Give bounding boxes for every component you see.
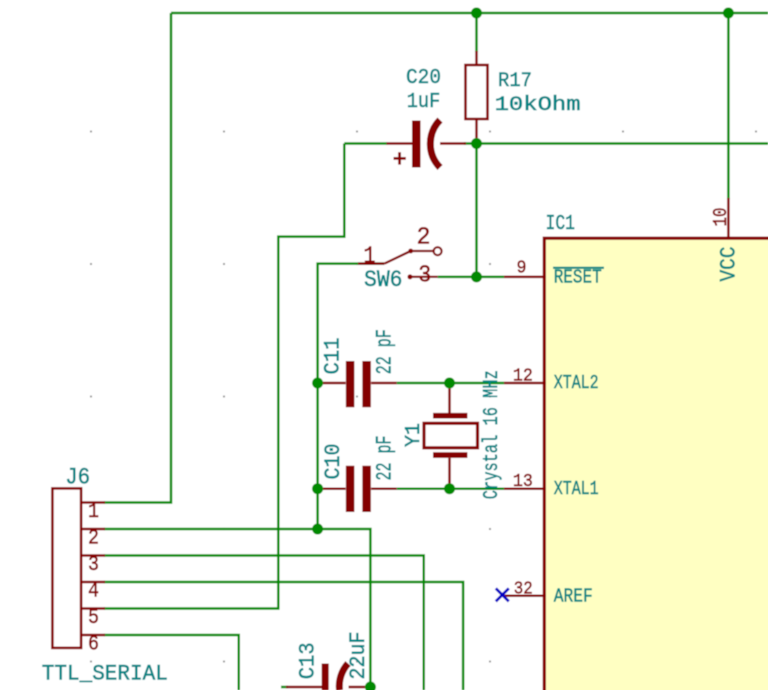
svg-text:VCC: VCC bbox=[717, 247, 742, 282]
svg-text:C10: C10 bbox=[321, 444, 346, 480]
wire J6 pin2 to C13 bbox=[104, 529, 370, 686]
wire top VCC rail bbox=[171, 12, 768, 15]
svg-text:XTAL2: XTAL2 bbox=[554, 372, 599, 394]
svg-text:1uF: 1uF bbox=[407, 91, 441, 114]
wire J6 pin4 down bbox=[104, 582, 463, 690]
pin C11 right lead bbox=[371, 382, 397, 385]
wire VCC vertical bbox=[727, 13, 730, 199]
pin Y1 top lead bbox=[448, 383, 451, 414]
svg-text:C13: C13 bbox=[296, 642, 321, 679]
crystal Y1 bbox=[424, 416, 478, 455]
pin C10 left lead bbox=[319, 487, 346, 490]
svg-text:22 pF: 22 pF bbox=[373, 329, 398, 374]
svg-text:2: 2 bbox=[88, 528, 99, 551]
wire J6 pin3 down bbox=[104, 556, 424, 691]
svg-text:C11: C11 bbox=[321, 338, 346, 375]
pin IC1 RESET 9 bbox=[504, 276, 546, 279]
connector J6 bbox=[52, 488, 105, 648]
resistor R17 bbox=[466, 65, 488, 119]
svg-text:TTL_SERIAL: TTL_SERIAL bbox=[42, 662, 168, 687]
capacitor C10 bbox=[350, 466, 367, 512]
svg-text:SW6: SW6 bbox=[364, 267, 403, 293]
svg-text:12: 12 bbox=[513, 366, 533, 386]
wire bend C20 down to J6 pin5 bbox=[104, 144, 344, 609]
svg-text:4: 4 bbox=[88, 581, 99, 604]
pin IC1 XTAL2 12 bbox=[504, 382, 546, 385]
pin C11 left lead bbox=[319, 382, 346, 385]
svg-text:Y1: Y1 bbox=[403, 423, 426, 447]
pin R17 top lead bbox=[475, 51, 478, 65]
capacitor C11 bbox=[350, 361, 367, 407]
svg-text:9: 9 bbox=[517, 259, 527, 279]
wire RESET row green bbox=[438, 276, 504, 279]
svg-text:32: 32 bbox=[514, 579, 533, 599]
svg-text:IC1: IC1 bbox=[546, 213, 576, 236]
svg-text:6: 6 bbox=[88, 634, 99, 657]
svg-text:3: 3 bbox=[88, 554, 99, 577]
svg-text:1: 1 bbox=[364, 244, 376, 271]
pin C20 right lead bbox=[440, 142, 466, 145]
wire R17 bottom vertical to RESET row bbox=[475, 144, 478, 277]
IC U1 body bbox=[544, 238, 768, 695]
wire R17 top from rail bbox=[475, 13, 478, 52]
capacitor C13 bbox=[325, 664, 348, 691]
svg-text:Crystal 16 MHz: Crystal 16 MHz bbox=[481, 370, 504, 499]
svg-text:RESET: RESET bbox=[554, 267, 602, 289]
svg-text:22 pF: 22 pF bbox=[373, 436, 398, 481]
grid dots bbox=[90, 130, 757, 662]
pin SW6 pin1 lead bbox=[358, 262, 385, 265]
pin IC1 AREF 32 bbox=[503, 595, 546, 598]
svg-text:J6: J6 bbox=[65, 465, 90, 491]
wire XTAL1 row green bbox=[397, 487, 504, 490]
svg-text:AREF: AREF bbox=[554, 585, 593, 607]
svg-text:10kOhm: 10kOhm bbox=[495, 94, 581, 117]
pin C13 left lead bbox=[286, 686, 322, 689]
wire C13 left stub bbox=[281, 686, 288, 689]
no-connect X on AREF bbox=[496, 588, 509, 601]
svg-text:10: 10 bbox=[710, 208, 732, 227]
pin IC1 XTAL1 13 bbox=[504, 487, 546, 490]
wire C13 right stub bbox=[365, 686, 370, 689]
svg-text:22uF: 22uF bbox=[346, 632, 371, 680]
svg-text:5: 5 bbox=[88, 607, 99, 630]
pin Y1 bottom lead bbox=[448, 458, 451, 489]
pin C13 right lead bbox=[349, 686, 367, 689]
capacitor C20 bbox=[394, 120, 441, 168]
wire SW6 pin1 branch bbox=[318, 264, 384, 529]
wire left vertical to J6 pin1 bbox=[104, 13, 171, 503]
svg-text:2: 2 bbox=[417, 225, 431, 252]
svg-text:1: 1 bbox=[88, 501, 99, 524]
pin C20 left lead bbox=[387, 142, 413, 145]
wire XTAL2 row green bbox=[397, 382, 504, 385]
svg-text:13: 13 bbox=[513, 472, 533, 492]
wire y143 rail right of C20 bbox=[464, 142, 768, 145]
pin IC1 VCC 10 bbox=[727, 198, 730, 239]
pin R17 bottom lead bbox=[475, 119, 478, 144]
pin C10 right lead bbox=[371, 487, 397, 490]
svg-text:R17: R17 bbox=[498, 70, 532, 93]
svg-text:XTAL1: XTAL1 bbox=[554, 478, 599, 500]
wire y143 rail left of C20 bbox=[344, 142, 387, 145]
switch SW6 bbox=[385, 247, 442, 279]
svg-text:C20: C20 bbox=[406, 67, 441, 90]
svg-text:3: 3 bbox=[418, 263, 431, 290]
wire J6 pin6 down bbox=[104, 635, 239, 690]
